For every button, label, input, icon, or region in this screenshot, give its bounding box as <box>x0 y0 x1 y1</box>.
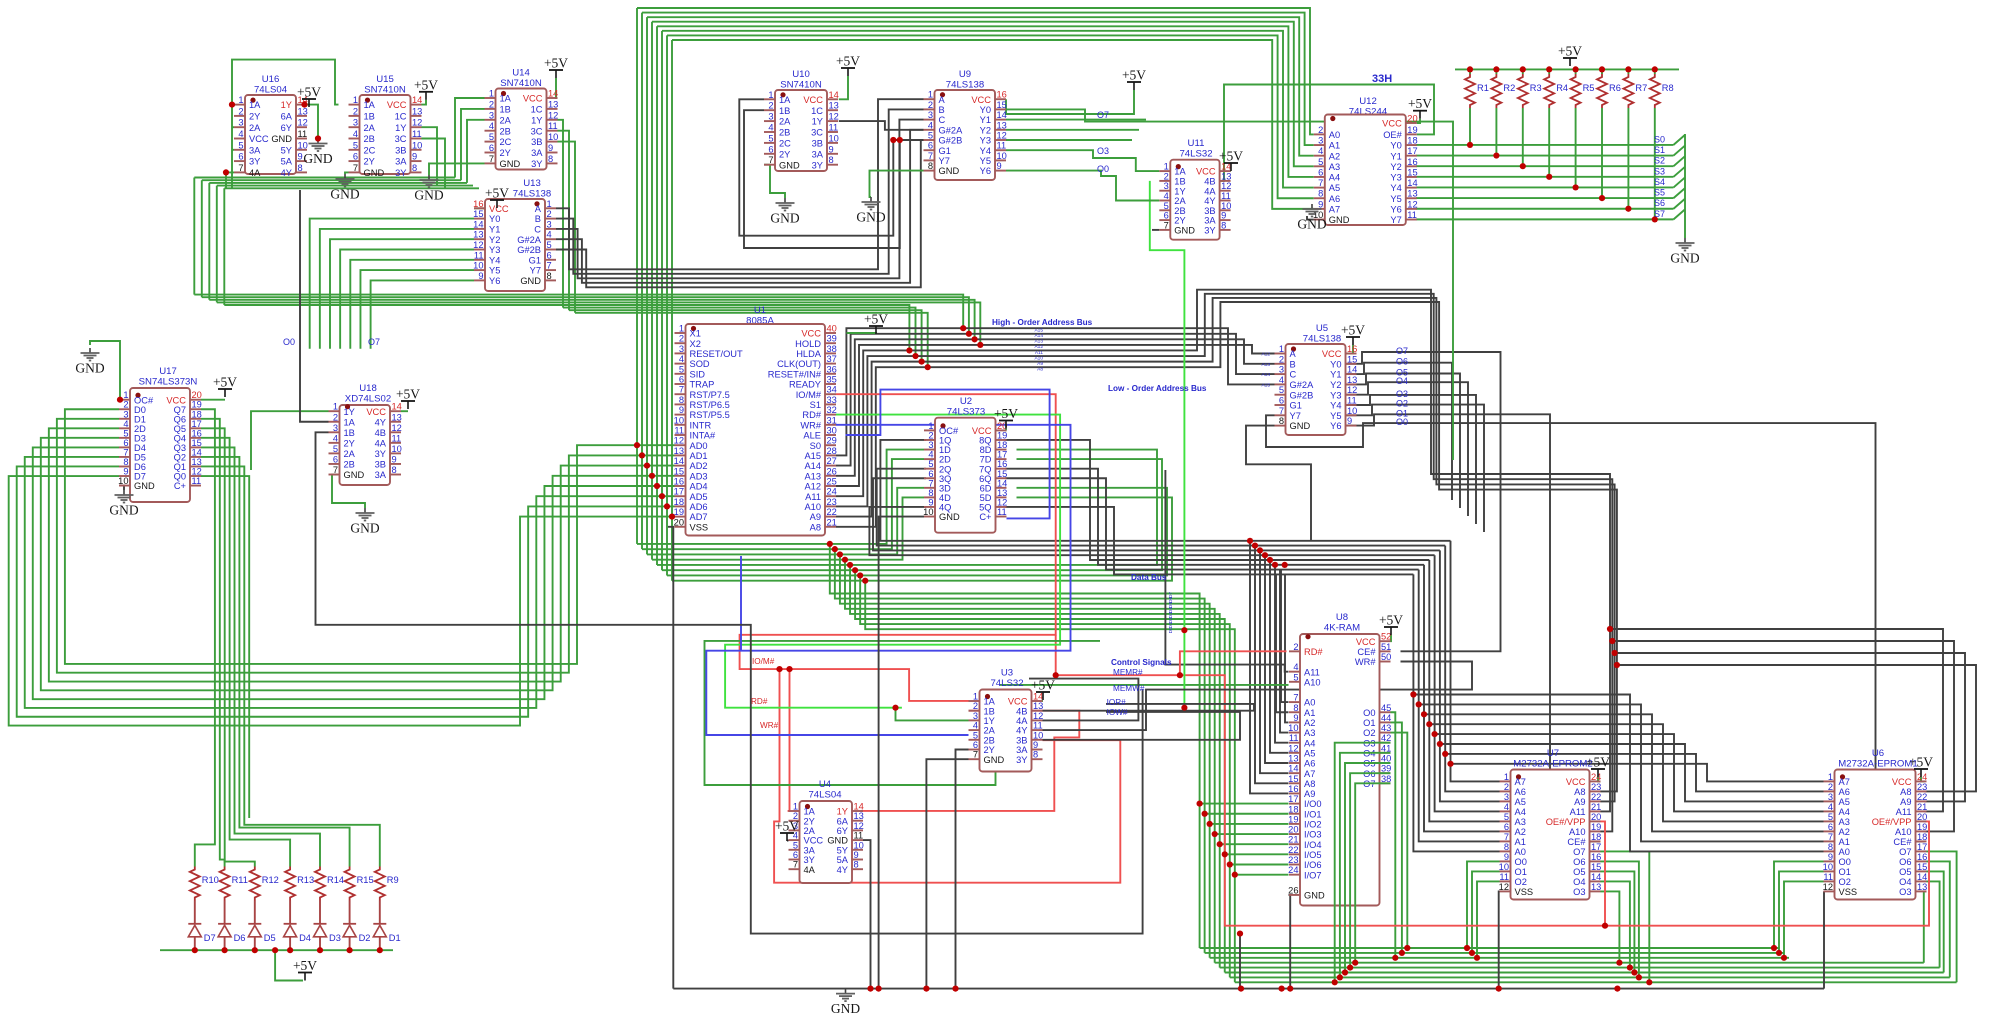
svg-text:1Q: 1Q <box>939 436 951 446</box>
svg-text:4: 4 <box>1293 662 1298 672</box>
wire data D6 to U2 right <box>667 488 1167 576</box>
svg-text:5: 5 <box>928 459 933 469</box>
wire data D2 second stage <box>840 554 1210 957</box>
svg-text:Y0: Y0 <box>1330 359 1341 369</box>
svg-text:R6: R6 <box>1609 83 1621 93</box>
wire O3 stub <box>1347 395 1477 524</box>
svg-text:6D: 6D <box>980 483 992 493</box>
svg-text:A13: A13 <box>804 471 821 481</box>
svg-text:16: 16 <box>1407 157 1417 167</box>
svg-text:23: 23 <box>1591 782 1601 792</box>
svg-text:IO/M#: IO/M# <box>752 657 775 666</box>
svg-text:11: 11 <box>1823 872 1833 882</box>
svg-text:3C: 3C <box>811 128 823 138</box>
svg-text:D0: D0 <box>134 405 146 415</box>
svg-text:O2: O2 <box>1363 728 1375 738</box>
svg-text:S3: S3 <box>1654 166 1665 176</box>
wire data D3 second stage <box>845 560 1215 963</box>
svg-text:10: 10 <box>548 132 558 142</box>
svg-text:24: 24 <box>1591 772 1601 782</box>
label S6 <box>1654 198 1665 208</box>
svg-text:INTA#: INTA# <box>690 431 716 441</box>
svg-text:CE#: CE# <box>1893 837 1912 847</box>
wire RD# branch U3 2A <box>896 708 969 721</box>
svg-text:MEMR#: MEMR# <box>1113 668 1143 677</box>
wire U10 VCC <box>839 76 848 99</box>
svg-text:O3: O3 <box>1899 887 1911 897</box>
svg-text:9: 9 <box>854 850 859 860</box>
wire U9 G#2B left <box>893 139 923 141</box>
svg-text:9: 9 <box>548 143 553 153</box>
wire R8 top <box>1654 69 1656 74</box>
svg-text:11: 11 <box>1289 733 1299 743</box>
svg-text:XD74LS02: XD74LS02 <box>345 394 391 405</box>
wire U16-U15 bottom line 1 <box>202 179 461 181</box>
svg-text:1A: 1A <box>249 100 261 110</box>
svg-text:Q0: Q0 <box>174 472 186 482</box>
label R1 <box>1477 83 1489 93</box>
wire low bus 7 <box>1150 573 1413 575</box>
svg-text:14: 14 <box>1407 178 1417 188</box>
svg-text:D4: D4 <box>134 443 146 453</box>
svg-text:5Y: 5Y <box>837 845 848 855</box>
svg-text:8: 8 <box>829 155 834 165</box>
wire U4 1Y red <box>861 711 1079 811</box>
svg-text:O0: O0 <box>1515 857 1527 867</box>
wire green long mid <box>705 641 1101 785</box>
svg-text:1Y: 1Y <box>837 807 848 817</box>
svg-text:A8: A8 <box>1900 787 1911 797</box>
junction dots U6 left O <box>1771 945 1787 961</box>
+5V (U9) <box>1122 68 1146 91</box>
svg-text:18: 18 <box>1288 804 1298 814</box>
label D2 <box>359 933 371 943</box>
dots U16 pins <box>223 102 235 176</box>
resistor R14 <box>315 867 325 901</box>
svg-text:GND: GND <box>414 188 443 203</box>
svg-text:13: 13 <box>674 446 684 456</box>
wire U14 3B drop <box>558 142 576 313</box>
wire U8 A10 green <box>1000 684 1289 686</box>
svg-text:S2: S2 <box>1654 156 1665 166</box>
junction dots K1 U6 branches <box>1607 626 1620 668</box>
svg-text:20: 20 <box>1288 825 1298 835</box>
label D3 <box>329 933 341 943</box>
wire U2 2Q under <box>877 469 1150 546</box>
svg-text:1: 1 <box>793 802 798 812</box>
svg-text:VCC: VCC <box>1008 697 1028 707</box>
svg-text:Y4: Y4 <box>489 255 500 265</box>
wire rail to +5V <box>275 950 303 980</box>
wire bus AD4 vertical <box>656 26 658 565</box>
wire U14 GND <box>429 163 485 175</box>
label D1 <box>389 933 401 943</box>
svg-text:12: 12 <box>1499 882 1509 892</box>
label O0 (U5) <box>1396 417 1408 427</box>
ground (U18) <box>350 508 379 536</box>
svg-text:9: 9 <box>679 405 684 415</box>
svg-text:D6: D6 <box>234 933 246 943</box>
svg-text:U11: U11 <box>1188 138 1205 149</box>
svg-text:4: 4 <box>333 433 338 443</box>
wire U7 VCC <box>1598 777 1601 781</box>
junction dot RD#red <box>1053 672 1183 678</box>
dots U9 G#2B <box>890 137 903 143</box>
label R15 <box>357 875 374 885</box>
svg-text:U13: U13 <box>523 178 541 189</box>
svg-text:A8: A8 <box>1304 779 1315 789</box>
svg-text:D7: D7 <box>134 472 146 482</box>
svg-text:3Y: 3Y <box>812 160 823 170</box>
svg-text:4A: 4A <box>804 865 816 875</box>
svg-text:3: 3 <box>928 110 933 120</box>
wire K2 vertical 5 <box>1440 550 1500 801</box>
wire black mid rail <box>316 432 1143 933</box>
svg-text:Y0: Y0 <box>489 214 500 224</box>
svg-text:Y2: Y2 <box>489 235 500 245</box>
svg-text:4D: 4D <box>939 493 951 503</box>
wires U15 output drops <box>422 127 446 188</box>
tiny label D7 (data bus) <box>1168 592 1174 598</box>
wire U8 O0 right <box>1391 712 1396 958</box>
svg-text:2A: 2A <box>344 449 356 459</box>
junction dot RD# data <box>892 627 1187 711</box>
wire U8 A feed 0 <box>1250 541 1289 794</box>
svg-text:IOW#: IOW# <box>1107 708 1128 717</box>
wire U13-U9 1 <box>556 109 924 273</box>
junction dots R1-R8 top rail <box>1467 66 1658 72</box>
svg-text:12: 12 <box>412 118 422 128</box>
svg-text:12: 12 <box>997 497 1007 507</box>
svg-text:5: 5 <box>1164 201 1169 211</box>
tiny label A14 (U5) <box>1261 372 1270 378</box>
svg-text:GND: GND <box>330 187 359 202</box>
label S3 <box>1654 166 1665 176</box>
svg-text:3Q: 3Q <box>939 474 951 484</box>
svg-text:5: 5 <box>973 730 978 740</box>
svg-text:1: 1 <box>353 95 358 105</box>
svg-text:8: 8 <box>928 161 933 171</box>
wire MEMR#/OE# red <box>1056 675 1605 926</box>
svg-text:9: 9 <box>1504 852 1509 862</box>
svg-text:A10: A10 <box>1034 355 1043 361</box>
junction dots K2 branches <box>1410 691 1453 767</box>
svg-text:I/O2: I/O2 <box>1304 820 1322 830</box>
wire R7 bottom to S6 <box>1627 108 1629 209</box>
IC U4 (74LS04) <box>789 779 864 883</box>
diode bottom rail <box>160 949 393 951</box>
tiny label A12 (U5) <box>1261 352 1270 358</box>
svg-text:1Y: 1Y <box>984 716 995 726</box>
+5V (U16) <box>297 85 321 108</box>
svg-text:11: 11 <box>997 507 1007 517</box>
svg-text:3B: 3B <box>531 137 542 147</box>
svg-text:+5V: +5V <box>864 312 888 327</box>
svg-text:11: 11 <box>674 426 684 436</box>
svg-text:8: 8 <box>392 465 397 475</box>
wire bus AD6 vertical <box>666 35 668 575</box>
wire U2 4Q under <box>869 507 1150 555</box>
svg-text:20: 20 <box>1407 114 1417 124</box>
wire U16-U15 bottom line 2 <box>209 182 467 184</box>
svg-text:19: 19 <box>674 507 684 517</box>
wire data bus bottom D0 <box>1200 947 1779 949</box>
svg-text:C+: C+ <box>979 512 991 522</box>
wire U8 I/O3 tap <box>1215 833 1289 835</box>
svg-text:GND: GND <box>350 521 379 536</box>
wire U17 Q4 to R13 <box>201 438 290 867</box>
junction dots U7 left O <box>1464 945 1480 961</box>
svg-text:5: 5 <box>489 132 494 142</box>
svg-text:R7: R7 <box>1635 83 1647 93</box>
svg-text:Y7: Y7 <box>939 156 950 166</box>
svg-text:12: 12 <box>1347 385 1357 395</box>
+5V (U18) <box>396 387 420 410</box>
svg-text:5: 5 <box>1504 812 1509 822</box>
wire IOW# <box>1043 712 1241 740</box>
svg-text:A7: A7 <box>1304 769 1315 779</box>
svg-text:10: 10 <box>392 444 402 454</box>
svg-text:16: 16 <box>1591 852 1601 862</box>
wire bus AD0 vertical <box>636 8 638 544</box>
svg-text:15: 15 <box>1288 774 1298 784</box>
tiny label A11 <box>1035 350 1044 356</box>
svg-text:2: 2 <box>123 400 128 410</box>
svg-text:13: 13 <box>192 457 202 467</box>
wire R4 top <box>1548 69 1550 74</box>
svg-text:3B: 3B <box>812 139 823 149</box>
svg-text:R4: R4 <box>1556 83 1568 93</box>
svg-text:A5: A5 <box>1839 797 1850 807</box>
wire MEMR# <box>1029 679 1138 721</box>
svg-text:13: 13 <box>997 120 1007 130</box>
svg-text:GND: GND <box>1670 251 1699 266</box>
svg-text:13: 13 <box>1347 375 1357 385</box>
svg-text:11: 11 <box>1499 872 1509 882</box>
svg-text:4Q: 4Q <box>939 503 951 513</box>
wire U13-U9 4 <box>556 140 924 287</box>
svg-text:9: 9 <box>412 152 417 162</box>
svg-text:GND: GND <box>500 159 521 169</box>
svg-text:O7: O7 <box>1899 847 1911 857</box>
svg-text:18: 18 <box>1591 832 1601 842</box>
svg-text:Q5: Q5 <box>174 424 186 434</box>
svg-text:A6: A6 <box>1329 194 1340 204</box>
svg-text:3A: 3A <box>812 149 824 159</box>
wire U13 VCC <box>474 207 497 209</box>
ground (U15 left) <box>330 174 359 202</box>
wire O5 stub <box>1347 374 1461 509</box>
svg-text:12: 12 <box>997 131 1007 141</box>
svg-text:VCC: VCC <box>249 134 269 144</box>
svg-text:G#2A: G#2A <box>1290 380 1315 390</box>
svg-text:10: 10 <box>923 507 933 517</box>
svg-text:2B: 2B <box>344 460 355 470</box>
wire U8 A feed 5 <box>1275 565 1289 743</box>
wire K2 vertical 0 <box>1413 574 1499 851</box>
svg-text:6: 6 <box>928 469 933 479</box>
IC U2 (74LS373) <box>923 396 1007 533</box>
svg-text:4B: 4B <box>1204 177 1215 187</box>
svg-text:VCC: VCC <box>489 204 509 214</box>
svg-text:Y7: Y7 <box>530 266 541 276</box>
wire U17 GND <box>119 486 124 490</box>
wire U7 O5 tap <box>1601 871 1635 972</box>
resistor R12 <box>250 867 260 901</box>
svg-text:+5V: +5V <box>485 186 509 201</box>
label O5 (U5) <box>1396 368 1408 378</box>
svg-text:8: 8 <box>298 163 303 173</box>
svg-text:5: 5 <box>793 840 798 850</box>
diode D6 <box>218 924 231 937</box>
label O1 (U5) <box>1396 408 1408 418</box>
resistor R7 <box>1623 74 1633 108</box>
svg-text:CLK(OUT): CLK(OUT) <box>777 359 821 369</box>
svg-text:R9: R9 <box>387 875 399 885</box>
svg-text:R10: R10 <box>202 875 219 885</box>
svg-text:O7: O7 <box>1097 110 1109 120</box>
svg-text:6: 6 <box>1504 822 1509 832</box>
svg-text:2: 2 <box>928 100 933 110</box>
svg-text:A9: A9 <box>810 512 821 522</box>
svg-text:3A: 3A <box>531 148 543 158</box>
svg-text:A4: A4 <box>1329 173 1340 183</box>
svg-text:O7: O7 <box>1396 346 1408 356</box>
svg-text:4: 4 <box>1828 802 1833 812</box>
tiny label A9 <box>1037 361 1043 367</box>
svg-text:Y5: Y5 <box>489 266 500 276</box>
wire U2 8Q right <box>1005 440 1150 560</box>
svg-text:A10: A10 <box>1569 827 1586 837</box>
label S5 <box>1654 188 1665 198</box>
svg-text:A11: A11 <box>1035 350 1044 356</box>
svg-text:GND: GND <box>939 166 960 176</box>
wire U6 O2 left <box>1784 881 1824 957</box>
wire R12 to diode <box>254 901 256 924</box>
svg-text:5A: 5A <box>837 855 849 865</box>
svg-text:3B: 3B <box>1016 735 1027 745</box>
junction dots O-bus to A-lines <box>906 325 983 370</box>
wire U7 VSS down <box>1498 891 1501 988</box>
svg-text:10: 10 <box>473 261 483 271</box>
label WR# <box>760 721 779 730</box>
svg-text:4: 4 <box>973 721 978 731</box>
svg-text:6: 6 <box>1318 167 1323 177</box>
svg-text:19: 19 <box>997 430 1007 440</box>
svg-text:1A: 1A <box>500 94 512 104</box>
svg-text:VCC: VCC <box>1196 167 1216 177</box>
svg-text:RST/P7.5: RST/P7.5 <box>690 390 730 400</box>
svg-text:3B: 3B <box>1204 206 1215 216</box>
svg-text:+5V: +5V <box>1408 96 1432 111</box>
svg-text:Q1: Q1 <box>174 462 186 472</box>
label R3 <box>1530 83 1542 93</box>
label R12 <box>262 875 279 885</box>
svg-text:U2: U2 <box>960 396 972 407</box>
wire O-bus line 0 <box>194 295 963 329</box>
svg-text:7D: 7D <box>980 455 992 465</box>
svg-text:U16: U16 <box>262 74 280 85</box>
svg-text:+5V: +5V <box>1031 678 1055 693</box>
svg-text:D5: D5 <box>134 453 146 463</box>
IC U10 (SN7410N) <box>764 69 839 171</box>
svg-text:A13: A13 <box>1261 362 1270 368</box>
junction dots diode rail <box>192 947 383 953</box>
svg-text:4Y: 4Y <box>375 417 386 427</box>
wire U8 O3 left <box>1335 743 1391 983</box>
svg-text:7: 7 <box>679 385 684 395</box>
svg-text:Y3: Y3 <box>1330 390 1341 400</box>
svg-text:4: 4 <box>238 129 243 139</box>
wire U17 Q5 to R12 <box>201 428 255 866</box>
label D7 <box>204 933 216 943</box>
svg-text:GND: GND <box>520 276 541 286</box>
label R13 <box>297 875 314 885</box>
resistor R4 <box>1544 74 1554 108</box>
svg-text:14: 14 <box>192 447 202 457</box>
wire U17 D5 to U1 AD5 <box>25 457 675 708</box>
svg-text:O0: O0 <box>1396 417 1408 427</box>
svg-text:AD2: AD2 <box>690 461 708 471</box>
svg-text:2A: 2A <box>1174 196 1186 206</box>
svg-text:TRAP: TRAP <box>690 380 715 390</box>
wire U2 3Q under <box>873 478 1150 550</box>
svg-text:VCC: VCC <box>1566 777 1586 787</box>
wire K2 vertical 7 <box>1451 541 1500 782</box>
label R10 <box>202 875 219 885</box>
wire D1 to rail <box>379 937 381 950</box>
ground (S bus) <box>1670 238 1699 266</box>
IC U18 (XD74LS02) <box>329 383 402 485</box>
svg-text:SN7410N: SN7410N <box>780 80 822 91</box>
wire A10 high bus <box>836 294 1612 832</box>
svg-text:4A: 4A <box>249 168 261 178</box>
svg-text:O2: O2 <box>1396 399 1408 409</box>
svg-text:1: 1 <box>928 90 933 100</box>
svg-text:U12: U12 <box>1359 96 1377 107</box>
resistor R5 <box>1571 74 1581 108</box>
svg-text:1B: 1B <box>984 706 995 716</box>
label O7 (left) <box>368 337 380 347</box>
svg-text:1: 1 <box>547 199 552 209</box>
label O3 (U5) <box>1396 389 1408 399</box>
svg-text:45: 45 <box>1381 703 1391 713</box>
wire U17 D7 to U1 AD7 <box>9 476 675 726</box>
svg-text:23: 23 <box>1917 782 1927 792</box>
svg-text:I/O4: I/O4 <box>1304 840 1322 850</box>
svg-text:74LS138: 74LS138 <box>946 80 984 91</box>
svg-text:2: 2 <box>1279 354 1284 364</box>
IC U14 (SN7410N) <box>485 68 559 170</box>
svg-text:8: 8 <box>679 395 684 405</box>
svg-text:4: 4 <box>679 354 684 364</box>
svg-text:23: 23 <box>1288 855 1298 865</box>
svg-text:1D: 1D <box>939 445 951 455</box>
svg-text:1C: 1C <box>531 105 543 115</box>
label R7 <box>1635 83 1647 93</box>
svg-text:1Y: 1Y <box>344 407 355 417</box>
svg-text:A9: A9 <box>1574 797 1585 807</box>
wire U13 Y1 stub <box>320 229 474 349</box>
svg-text:U7: U7 <box>1547 748 1559 759</box>
resistor R10 <box>190 867 200 901</box>
wire U13 Y2 stub <box>330 239 474 349</box>
svg-text:1A: 1A <box>1174 167 1186 177</box>
svg-text:29: 29 <box>827 436 837 446</box>
svg-text:2C: 2C <box>364 145 376 155</box>
svg-text:2A: 2A <box>364 123 376 133</box>
svg-text:22: 22 <box>827 507 837 517</box>
